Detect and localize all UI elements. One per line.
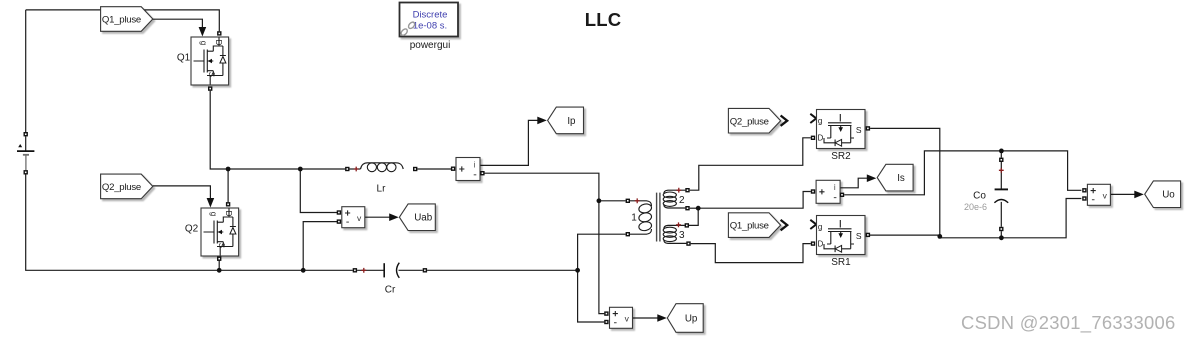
svg-text:Uab: Uab <box>414 213 433 224</box>
svg-text:Up: Up <box>685 314 698 325</box>
svg-text:D: D <box>214 40 223 46</box>
svg-text:Is: Is <box>897 173 905 184</box>
svg-text:20e-6: 20e-6 <box>964 202 987 212</box>
svg-text:Q2_pluse: Q2_pluse <box>102 182 141 193</box>
svg-text:g: g <box>818 116 822 125</box>
svg-text:Ip: Ip <box>567 116 576 127</box>
svg-text:Q1_pluse: Q1_pluse <box>730 221 769 232</box>
svg-text:Uo: Uo <box>1162 190 1175 201</box>
svg-text:g: g <box>818 222 822 231</box>
svg-text:Cr: Cr <box>385 284 396 295</box>
svg-text:SR1: SR1 <box>831 257 851 268</box>
svg-text:2: 2 <box>679 195 685 206</box>
svg-text:g: g <box>199 41 208 45</box>
svg-text:1: 1 <box>631 213 637 224</box>
svg-text:CSDN @2301_76333006: CSDN @2301_76333006 <box>961 312 1176 334</box>
svg-text:3: 3 <box>679 230 685 241</box>
svg-text:i: i <box>834 183 836 192</box>
svg-text:S: S <box>856 125 862 135</box>
svg-text:D: D <box>224 211 233 217</box>
svg-text:S: S <box>217 243 226 248</box>
svg-text:g: g <box>209 212 218 216</box>
svg-text:1e-08 s.: 1e-08 s. <box>413 20 447 31</box>
svg-text:powergui: powergui <box>410 40 451 51</box>
svg-text:i: i <box>474 160 476 169</box>
svg-text:Q2: Q2 <box>185 224 199 235</box>
svg-text:v: v <box>625 314 630 324</box>
svg-text:Q1_pluse: Q1_pluse <box>102 15 141 26</box>
svg-text:D: D <box>818 133 824 142</box>
svg-text:Q2_pluse: Q2_pluse <box>730 116 769 127</box>
svg-text:SR2: SR2 <box>831 151 851 162</box>
svg-text:LLC: LLC <box>585 9 622 30</box>
svg-text:D: D <box>818 239 824 248</box>
svg-text:v: v <box>357 213 362 223</box>
svg-text:Q1: Q1 <box>177 53 191 64</box>
svg-text:Discrete: Discrete <box>413 9 448 20</box>
svg-text:S: S <box>856 231 862 241</box>
svg-text:S: S <box>207 72 216 77</box>
svg-text:v: v <box>1103 191 1108 201</box>
svg-text:Co: Co <box>973 190 986 201</box>
svg-text:Lr: Lr <box>377 184 387 195</box>
